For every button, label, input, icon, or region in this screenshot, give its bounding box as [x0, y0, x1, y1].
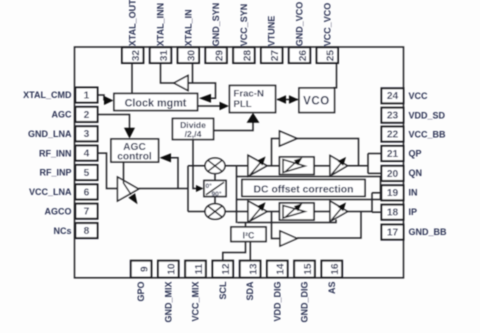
arrow feedback into AGC control — [160, 153, 172, 162]
pin 21 — [382, 146, 404, 161]
svg-text:23: 23 — [387, 111, 399, 122]
wire I chain seg3 — [314, 165, 330, 167]
xtal oscillator buffer — [174, 76, 188, 91]
svg-text:26: 26 — [298, 50, 309, 62]
svg-text:VCC_MIX: VCC_MIX — [191, 282, 201, 322]
svg-text:IP: IP — [409, 207, 418, 217]
wire Q chain output — [348, 211, 373, 213]
Q chain VGA2 — [330, 201, 348, 222]
svg-text:XTAL_CMD: XTAL_CMD — [23, 90, 72, 100]
wire Q buffer output — [297, 212, 361, 239]
svg-text:29: 29 — [215, 50, 226, 62]
wire RF to I mixer — [188, 165, 205, 167]
svg-text:VCC_VCO: VCC_VCO — [322, 3, 332, 47]
svg-text:Frac-N: Frac-N — [234, 89, 264, 100]
wire Q chain seg3 — [314, 211, 330, 213]
wire AGC feedback tap — [171, 158, 178, 189]
svg-text:control: control — [117, 152, 152, 163]
svg-text:6: 6 — [84, 187, 90, 198]
svg-text:VDD_SD: VDD_SD — [409, 110, 446, 120]
svg-text:Clock mgmt: Clock mgmt — [125, 98, 187, 110]
svg-text:5: 5 — [84, 168, 90, 179]
wire I buffer output — [297, 139, 359, 166]
wire Q buffer tap — [272, 212, 281, 239]
arrow pin1 into Clock mgmt — [104, 96, 114, 105]
block I2C — [231, 227, 266, 242]
svg-text:27: 27 — [270, 50, 281, 62]
svg-text:GND_VCO: GND_VCO — [295, 2, 305, 47]
svg-text:31: 31 — [159, 50, 170, 62]
wire DC loop left vertical — [236, 166, 238, 223]
wire divider output to PLL — [214, 122, 254, 131]
svg-text:VCO: VCO — [303, 96, 330, 108]
pin 27 — [261, 47, 282, 63]
pin 29 — [205, 47, 226, 63]
I chain VGA1 — [248, 155, 267, 176]
mixer I — [205, 158, 225, 174]
svg-text:RF_INN: RF_INN — [39, 148, 72, 158]
pin 19 — [382, 185, 404, 200]
svg-text:9: 9 — [140, 266, 151, 272]
svg-text:14: 14 — [276, 263, 287, 275]
svg-text:XTAL_IN: XTAL_IN — [183, 9, 193, 46]
block Frac-N PLL — [230, 86, 276, 113]
pin 11 — [185, 261, 206, 278]
svg-text:AGC: AGC — [52, 110, 73, 120]
pin 8 — [76, 223, 98, 238]
svg-text:25: 25 — [326, 50, 337, 62]
I chain buffer — [280, 131, 298, 146]
svg-text:19: 19 — [387, 188, 399, 199]
svg-text:0°: 0° — [206, 182, 213, 190]
LNA amplifier — [118, 177, 139, 201]
svg-text:GND_DIG: GND_DIG — [300, 282, 310, 323]
wire stub to pin QN — [368, 172, 382, 174]
svg-text:/2,/4: /2,/4 — [185, 129, 202, 139]
pin 6 — [76, 184, 98, 199]
block Clock mgmt — [114, 94, 198, 111]
svg-text:18: 18 — [387, 208, 399, 219]
svg-text:21: 21 — [387, 149, 399, 160]
svg-text:11: 11 — [194, 263, 205, 274]
svg-text:AGCO: AGCO — [45, 206, 72, 216]
wire phase shifter to Q mixer — [214, 197, 216, 204]
wire DC loop right vertical — [380, 177, 382, 200]
svg-text:4: 4 — [84, 149, 90, 160]
arrow xtal node into Clock mgmt — [199, 94, 211, 103]
pin 16 — [322, 261, 343, 278]
svg-text:13: 13 — [249, 263, 260, 275]
svg-text:I²C: I²C — [243, 230, 255, 240]
arrow into PLL from VCO — [277, 95, 287, 103]
svg-text:XTAL_OUT: XTAL_OUT — [128, 0, 138, 46]
svg-text:DC offset correction: DC offset correction — [254, 184, 354, 195]
wire I mixer to phase shifter — [214, 174, 216, 181]
I chain VGA2 — [330, 156, 348, 177]
pin 14 — [267, 261, 288, 278]
svg-text:16: 16 — [330, 263, 341, 275]
svg-text:2: 2 — [84, 110, 90, 121]
svg-text:NCs: NCs — [53, 226, 71, 236]
wire DC loop lower — [237, 199, 381, 201]
block DC offset correction — [242, 180, 365, 197]
pin 18 — [382, 205, 404, 220]
svg-text:SCL: SCL — [218, 281, 228, 300]
svg-text:PLL: PLL — [234, 99, 252, 110]
svg-text:AS: AS — [327, 282, 337, 295]
pin 31 — [150, 47, 171, 63]
Q chain buffer — [280, 231, 297, 246]
wire stub to pin IN — [372, 192, 382, 194]
pin 13 — [240, 261, 261, 278]
svg-text:GND_LNA: GND_LNA — [28, 129, 72, 139]
pin 32 — [122, 47, 143, 63]
svg-text:QP: QP — [409, 149, 422, 159]
svg-text:28: 28 — [242, 50, 253, 62]
pin 4 — [76, 146, 98, 161]
wire Q mixer out to VGA1 — [225, 211, 248, 213]
svg-text:22: 22 — [387, 130, 399, 141]
wire I buffer tap — [272, 139, 280, 166]
mixer Q — [205, 204, 225, 220]
chip body U1 — [75, 47, 404, 278]
wire Q wrap line — [238, 220, 337, 223]
arrow LO into 0/90 phase shifter — [196, 185, 204, 192]
svg-text:32: 32 — [131, 50, 142, 62]
wire AGC control gain line into LNA — [124, 162, 132, 195]
wire stub to pin QP — [368, 153, 382, 155]
wire I chain output — [348, 165, 369, 167]
Q chain boxed VGA — [280, 203, 315, 220]
wire I2C to wrap line — [245, 223, 247, 228]
svg-text:IN: IN — [409, 188, 418, 198]
pin 12 — [213, 261, 234, 278]
svg-text:1: 1 — [84, 90, 90, 101]
svg-text:17: 17 — [387, 228, 399, 239]
svg-text:GND_SYN: GND_SYN — [211, 3, 221, 47]
pin 26 — [289, 47, 310, 63]
pin 30 — [178, 47, 199, 63]
block Divide /2,/4 — [173, 119, 214, 140]
svg-text:XTAL_INN: XTAL_INN — [156, 3, 166, 46]
pin 23 — [382, 108, 404, 123]
wire LNA output — [139, 188, 189, 190]
Q chain VGA1 — [248, 201, 267, 222]
svg-text:15: 15 — [303, 263, 314, 275]
svg-text:VCC_SYN: VCC_SYN — [239, 4, 249, 47]
wire I output vertical to QP QN — [367, 154, 369, 174]
pin 1 — [76, 88, 98, 103]
wire DC loop upper — [237, 176, 381, 178]
svg-text:SDA: SDA — [245, 281, 255, 301]
svg-text:RF_INP: RF_INP — [39, 168, 71, 178]
svg-text:3: 3 — [84, 129, 90, 140]
arrow pin2 into AGC control — [124, 128, 135, 139]
svg-text:VCC_BB: VCC_BB — [409, 129, 447, 139]
wire pin4 RF_INN to LNA input — [98, 153, 118, 188]
block AGC control — [111, 139, 159, 163]
block VCO — [299, 88, 335, 113]
svg-text:90°: 90° — [212, 190, 222, 198]
wire stub to pin IP — [372, 211, 382, 213]
wire pin2 AGC down to AGC control — [98, 115, 130, 129]
svg-text:7: 7 — [84, 207, 90, 218]
svg-text:8: 8 — [84, 226, 90, 237]
wire pin31 to xtal buffer output — [161, 63, 175, 83]
wire Q output vertical to IN IP — [371, 193, 373, 212]
pin 10 — [158, 261, 179, 278]
svg-text:QN: QN — [409, 168, 423, 178]
svg-text:24: 24 — [387, 91, 399, 102]
arrow divider into PLL bottom — [247, 113, 260, 123]
pin 22 — [382, 127, 404, 142]
wire pin30 to xtal node — [192, 63, 194, 83]
arrow into Frac-N PLL — [220, 102, 230, 111]
wire PLL-VCO link — [277, 99, 298, 101]
wire I mixer out to VGA1 — [225, 165, 248, 167]
wire divider LO down to phase shifter — [193, 140, 197, 189]
pin 3 — [76, 126, 98, 141]
wire RF to Q mixer — [188, 211, 205, 213]
svg-text:10: 10 — [167, 263, 178, 275]
pin 2 — [76, 107, 98, 122]
wire clock mgmt to PLL — [198, 105, 223, 107]
arrow AGC gain onto LNA — [128, 193, 137, 204]
wire I2C to SDA pin13 — [249, 242, 251, 261]
wire I chain seg2 — [267, 165, 280, 167]
svg-text:VTUNE: VTUNE — [267, 16, 277, 47]
pin 9 — [131, 261, 152, 278]
pin 20 — [382, 166, 404, 181]
svg-text:VCC_LNA: VCC_LNA — [29, 187, 72, 197]
pin 5 — [76, 165, 98, 180]
quadrature phase shifter 0/90 — [204, 181, 226, 198]
I chain boxed VGA — [280, 157, 315, 175]
wire RF branch vertical to mixers — [187, 166, 189, 212]
wire pin32 to clock mgmt — [131, 63, 133, 94]
wire pin1 XTAL_CMD into clock mgmt — [98, 95, 104, 101]
svg-text:GPO: GPO — [136, 282, 146, 302]
pin 24 — [382, 88, 404, 103]
pin 17 — [382, 225, 404, 240]
pin 15 — [294, 261, 315, 278]
pin 7 — [76, 204, 98, 219]
wire Q chain seg2 — [267, 211, 280, 213]
wire I2C to SCL pin12 — [223, 242, 246, 261]
pin 25 — [317, 47, 338, 63]
svg-text:12: 12 — [221, 263, 232, 275]
svg-text:20: 20 — [387, 169, 399, 180]
arrow into VCO from PLL — [289, 95, 299, 103]
wire pin25 VCC_VCO to VCO — [334, 63, 337, 88]
pin 28 — [233, 47, 254, 63]
svg-text:VCC: VCC — [409, 91, 429, 101]
svg-text:VDD_DIG: VDD_DIG — [272, 282, 282, 322]
svg-text:30: 30 — [187, 50, 198, 62]
svg-text:GND_BB: GND_BB — [409, 227, 448, 237]
svg-text:GND_MIX: GND_MIX — [163, 282, 173, 323]
